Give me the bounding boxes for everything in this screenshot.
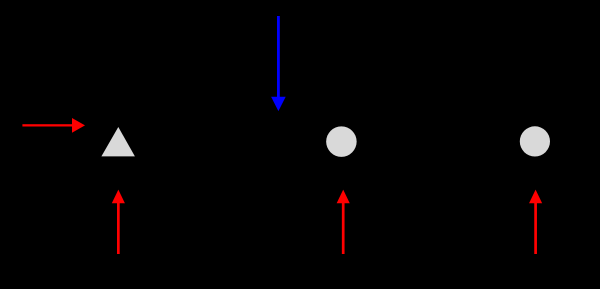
horizontal applied force arrow (red, pointing right) — [22, 118, 85, 133]
roller support circle left — [326, 126, 357, 157]
vertical load arrow (blue, pointing down) — [271, 16, 286, 111]
reaction arrow under triangle (red, pointing up) — [112, 190, 125, 254]
roller support circle right — [520, 126, 550, 156]
reaction arrow under right roller (red, pointing up) — [529, 190, 542, 254]
pivot support triangle — [101, 127, 134, 156]
reaction arrow under left roller (red, pointing up) — [337, 190, 350, 254]
